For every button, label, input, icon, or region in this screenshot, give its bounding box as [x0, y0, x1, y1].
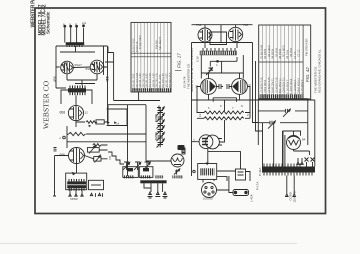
tuning gang symbols: [123, 162, 150, 170]
page edge faint line: [0, 243, 297, 245]
resistor R10 zigzag long: [204, 111, 244, 114]
svg-text:C2 .02: C2 .02: [298, 49, 301, 57]
svg-text:5622 GRAND AVE. CHICAGO ILL: 5622 GRAND AVE. CHICAGO ILL: [317, 49, 321, 93]
coupling caps between outputs: [216, 84, 231, 89]
svg-text:R3 2 MEG: R3 2 MEG: [268, 45, 271, 57]
svg-text:84: 84: [302, 138, 306, 142]
svg-text:C11 .0001 MICA: C11 .0001 MICA: [290, 78, 293, 97]
wire socket leads: [209, 176, 233, 193]
svg-text:6SK7: 6SK7: [86, 67, 94, 71]
capacitor C8 box: [87, 148, 99, 153]
svg-text:R9 25M: R9 25M: [290, 48, 293, 57]
svg-text:WEBSTER PAGE 6-1: WEBSTER PAGE 6-1: [30, 0, 36, 28]
right enclosure box: [258, 99, 308, 145]
ground arrow 3: [163, 192, 168, 198]
wire connector down: [60, 46, 95, 52]
field coil box: [236, 169, 246, 180]
wire tube leads: [283, 131, 310, 167]
power transformer T4: [198, 163, 217, 180]
IF transformer T1 (456kc): [68, 86, 86, 96]
FIG 17 underline: [175, 69, 182, 71]
svg-text:C7 .05 400V TUB: C7 .05 400V TUB: [275, 77, 278, 97]
socket plug circle: [202, 183, 217, 198]
wire bus 122.7: [258, 122, 308, 124]
resistor R6 zigzag: [93, 144, 108, 147]
svg-text:456: 456: [53, 76, 57, 82]
svg-text:7/2: 7/2: [108, 155, 112, 160]
capacitor C12: [206, 68, 213, 75]
wire coil leads down: [144, 183, 163, 192]
osc coil box 2: [139, 167, 153, 178]
capacitor C9 box: [94, 157, 101, 162]
svg-text:6.3V: 6.3V: [196, 56, 200, 62]
svg-text:C24B: C24B: [154, 131, 158, 140]
antenna terminal B: [69, 25, 72, 28]
svg-text:R7 1 MEG: R7 1 MEG: [283, 45, 286, 57]
filament comb T3: [200, 51, 237, 55]
svg-text:2: 2: [193, 139, 195, 143]
tube V7 output: [201, 79, 217, 95]
antenna coil L1 comb: [66, 42, 85, 45]
resistor R5 zigzag: [69, 132, 86, 135]
plus terminal: [157, 106, 161, 110]
antenna terminal A: [63, 25, 66, 28]
capacitor C20: [283, 109, 290, 117]
tube V6: [228, 27, 242, 41]
table bottom hatch: [259, 94, 303, 98]
svg-text:6 SQ7 DET: 6 SQ7 DET: [138, 35, 142, 49]
X fuse marks: [305, 158, 315, 162]
tube V5: [198, 28, 212, 42]
wire bus 134: [67, 126, 128, 148]
wire output tubes: [197, 73, 250, 102]
connector blob: [178, 145, 185, 150]
arrow to transformer: [297, 158, 313, 167]
volume control terminal: [63, 136, 66, 139]
wire tube links: [56, 67, 108, 86]
wire from shield to table area: [105, 47, 160, 101]
svg-text:FIG. 42: FIG. 42: [305, 67, 310, 82]
svg-text:R8 10M: R8 10M: [286, 50, 289, 59]
svg-text:R6 250M: R6 250M: [279, 49, 282, 59]
resistor R11 zigzag long: [204, 117, 244, 120]
table bottom hatch: [131, 88, 171, 92]
wire V3 bottom: [76, 104, 108, 127]
svg-text:PM SPEAKER: PM SPEAKER: [305, 38, 309, 56]
wire transformer leads: [70, 189, 82, 195]
tube V10 rectifier: [199, 135, 213, 149]
wire V4 connections: [54, 148, 108, 194]
svg-text:C10 .05 400V T: C10 .05 400V T: [286, 79, 289, 97]
output transformer T2: [66, 172, 87, 191]
svg-text:R4 500M: R4 500M: [272, 49, 275, 59]
wire center box: [201, 55, 243, 79]
svg-text:41: 41: [195, 84, 199, 88]
svg-text:L-42A: L-42A: [250, 194, 254, 202]
svg-text:R2 220M: R2 220M: [264, 49, 267, 59]
staircase wire: [108, 152, 124, 164]
svg-text:C5 .02 600V TUB: C5 .02 600V TUB: [268, 77, 271, 97]
table divider: [259, 61, 303, 63]
tube V3 6SQ7: [68, 105, 83, 120]
svg-text:41: 41: [248, 83, 252, 87]
resistor R4 box: [96, 120, 104, 124]
svg-text:SPKR: SPKR: [70, 197, 78, 201]
wire right verticals: [263, 100, 315, 167]
svg-text:SOCKET: SOCKET: [203, 197, 214, 201]
svg-text:12: 12: [198, 113, 202, 117]
svg-text:R5 50M: R5 50M: [275, 48, 278, 57]
svg-text:Schematic: Schematic: [46, 11, 52, 34]
trimmer bank 1: [154, 107, 165, 129]
osc coil box 1: [123, 167, 139, 178]
input terminal: [193, 170, 195, 172]
svg-text:C4 .0001 MICA: C4 .0001 MICA: [264, 80, 267, 97]
svg-text:110V. AC.: 110V. AC.: [293, 190, 297, 202]
wire bus 142: [67, 141, 146, 143]
tube V1 6SA7: [61, 61, 74, 74]
ground arrow 2: [155, 192, 160, 197]
wire grid row: [210, 57, 237, 73]
svg-text:C: C: [216, 63, 218, 67]
svg-text:C3 .05 400V TUB: C3 .05 400V TUB: [261, 77, 264, 97]
wire transformer links: [203, 171, 250, 183]
svg-text:FIG. 17: FIG. 17: [176, 53, 181, 68]
tube V11 rect: [287, 136, 301, 150]
svg-text:C6 10MF 25V EL: C6 10MF 25V EL: [272, 77, 275, 97]
svg-text:C9 .004 600V TU: C9 .004 600V TU: [283, 78, 286, 97]
speaker option box: [89, 180, 104, 189]
wire shield box left section: [56, 46, 108, 104]
resistor R3 zigzag: [86, 121, 97, 124]
svg-text:C8 8MF 450V EL: C8 8MF 450V EL: [279, 77, 282, 97]
trimmer bank 2: [154, 126, 165, 148]
svg-text:R1 6M OHM: R1 6M OHM: [261, 45, 264, 59]
capacitor C21: [268, 121, 275, 129]
ground terminal arrows: [53, 191, 83, 196]
svg-text:C1 .05: C1 .05: [294, 51, 297, 59]
svg-text:6SA7: 6SA7: [75, 63, 83, 67]
wire main vertical bus: [192, 43, 253, 177]
comb teeth leads: [203, 42, 237, 51]
antenna terminal C: [75, 25, 78, 28]
antenna terminal D: [82, 24, 85, 27]
svg-text:12: 12: [85, 111, 89, 115]
ground arrow 1: [148, 192, 153, 198]
svg-text:WEBSTER CO: WEBSTER CO: [42, 80, 51, 129]
power cord wires: [286, 176, 296, 197]
fuse holder: [233, 190, 249, 196]
tube V9 6E5 eye: [171, 154, 184, 167]
wire inter-section links: [128, 134, 172, 161]
main coil bar: [140, 180, 166, 183]
tube V8 output: [232, 79, 248, 95]
svg-text:MADE W/ LATE SET OF CHASSIS: MADE W/ LATE SET OF CHASSIS: [190, 48, 194, 92]
svg-text:Ant: Ant: [82, 21, 86, 25]
svg-text:FM AM: FM AM: [155, 40, 159, 49]
bus 104: [108, 105, 146, 176]
svg-text:C14 .05 400V T: C14 .05 400V T: [301, 79, 304, 97]
svg-text:456: 456: [105, 76, 109, 82]
AVC box: [107, 109, 127, 126]
table box: [131, 22, 171, 92]
svg-text:698: 698: [60, 153, 66, 157]
tube V2 6SK7: [90, 60, 104, 74]
svg-text:P-42A: P-42A: [258, 168, 262, 176]
tube V4 6B8: [69, 148, 85, 164]
wire resistor links: [197, 100, 250, 133]
trimmer below eye: [174, 169, 180, 175]
svg-text:P-17A: P-17A: [256, 182, 260, 190]
wire rectifier leads: [192, 133, 241, 169]
table divider double: [131, 52, 171, 54]
wire tubes top: [192, 25, 253, 45]
svg-text:L 350 300 -25 5: L 350 300 -25 5: [169, 72, 172, 90]
resistor small vertical: [182, 148, 185, 154]
svg-text:6B8: 6B8: [60, 111, 66, 115]
table column lines: [134, 22, 167, 92]
wire IF to tube V3: [61, 84, 95, 106]
junction node: [217, 60, 219, 62]
wire antenna leads: [65, 28, 84, 43]
wire bus 110.9: [258, 110, 308, 112]
svg-text:C12 .02 600V T: C12 .02 600V T: [294, 79, 297, 97]
border frame: [35, 8, 326, 214]
coil combs row: [124, 175, 135, 178]
bus 100: [192, 61, 309, 131]
power transformer P-42A: [262, 164, 315, 176]
